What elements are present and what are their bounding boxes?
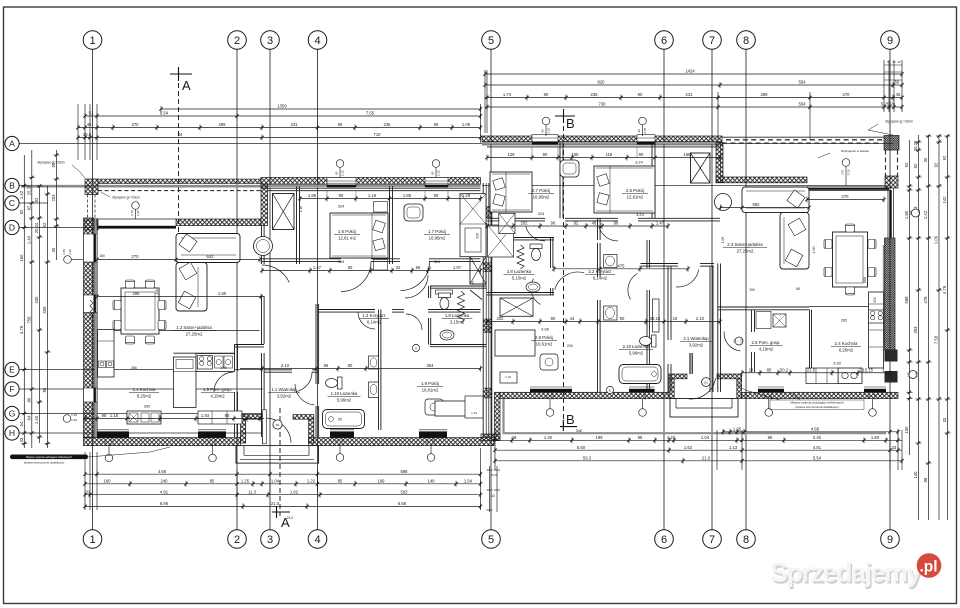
kitchen 2.4 west edge	[809, 310, 811, 372]
svg-text:92: 92	[19, 209, 24, 214]
svg-text:324: 324	[434, 259, 441, 264]
svg-text:1.97: 1.97	[453, 265, 462, 270]
grid bubble 7 top	[703, 31, 722, 50]
svg-text:180: 180	[99, 254, 105, 258]
svg-text:85: 85	[210, 479, 215, 484]
svg-text:710: 710	[374, 132, 382, 137]
door arc pom gosp 2.5	[724, 331, 740, 351]
svg-text:21.0: 21.0	[271, 501, 280, 506]
svg-text:266: 266	[131, 366, 137, 370]
window marker left terrace	[132, 202, 140, 210]
svg-text:2.10 Łazienka: 2.10 Łazienka	[623, 344, 650, 349]
window marker bottom 2.5	[765, 409, 773, 417]
sofa cushions diagonal	[787, 190, 805, 208]
svg-text:2.25: 2.25	[136, 210, 140, 216]
svg-text:4.79: 4.79	[942, 285, 947, 294]
svg-text:25,20: 25,20	[27, 184, 32, 195]
svg-text:1.86: 1.86	[308, 193, 317, 198]
svg-text:32: 32	[396, 265, 401, 270]
washbasin 2.10 lower	[604, 306, 617, 320]
wall room 2.7 | room 2.6	[559, 142, 561, 218]
shelf bathroom 1.8	[435, 290, 452, 294]
left edge dim line c	[39, 186, 41, 443]
svg-text:B: B	[566, 412, 575, 427]
svg-text:730: 730	[599, 102, 607, 107]
svg-text:1.6 Pokój: 1.6 Pokój	[338, 229, 356, 234]
svg-text:1.60: 1.60	[871, 435, 880, 440]
svg-text:2.25: 2.25	[341, 170, 345, 176]
svg-text:64: 64	[19, 421, 24, 426]
svg-text:330: 330	[144, 404, 151, 409]
washbasin 2.8	[526, 282, 540, 292]
svg-text:B: B	[566, 116, 575, 131]
dim row left corridor	[262, 270, 481, 272]
svg-text:393: 393	[913, 326, 918, 334]
svg-text:10,95m2: 10,95m2	[429, 235, 446, 240]
porch column dashed sides	[87, 195, 89, 221]
toilet bathroom 1.8	[438, 293, 450, 310]
dining table right house	[833, 232, 868, 287]
window marker west living	[64, 256, 72, 264]
svg-text:85: 85	[638, 435, 643, 440]
svg-text:90: 90	[348, 265, 353, 270]
svg-text:4.00: 4.00	[812, 247, 816, 254]
svg-text:44: 44	[570, 316, 575, 321]
terrace south wall	[176, 219, 261, 226]
svg-text:1.40: 1.40	[27, 235, 32, 244]
svg-text:1.18: 1.18	[368, 193, 377, 198]
svg-text:270: 270	[841, 169, 845, 174]
window marker room 1.7	[432, 160, 440, 168]
toilet 2.10	[640, 335, 657, 347]
kitchen counter edge top	[173, 352, 234, 354]
svg-text:H: H	[9, 428, 15, 438]
bathroom 1.8 north wall	[430, 285, 486, 287]
bottom wall window (room 2.9)	[530, 389, 572, 393]
dim riser lines top-left	[77, 104, 79, 160]
dim line top-left room widths	[78, 127, 481, 129]
dim row right rooms top	[487, 157, 720, 159]
svg-text:270: 270	[132, 122, 140, 127]
svg-text:25,20: 25,20	[491, 473, 498, 477]
grid axis line H	[19, 432, 263, 434]
room 2.9 east wall	[597, 218, 599, 240]
svg-text:1.42: 1.42	[923, 210, 928, 219]
toilet 1.10	[326, 377, 343, 389]
dim line bottom-left 491/593	[85, 494, 481, 496]
svg-text:129: 129	[508, 152, 516, 157]
grid bubble 6 bottom	[655, 530, 674, 549]
svg-text:1424: 1424	[685, 69, 695, 74]
grid bubble 8 bottom	[737, 530, 756, 549]
grid axis line F	[19, 388, 263, 390]
dim risers bottom-right	[494, 430, 496, 470]
svg-text:21.0: 21.0	[287, 516, 294, 520]
window in west wall (living room second)	[84, 295, 98, 313]
svg-text:118: 118	[606, 152, 613, 157]
pom gosp 2.5 east wall	[751, 310, 753, 332]
kitchen cupboard west wall	[98, 330, 115, 378]
svg-text:2.25: 2.25	[847, 169, 851, 175]
svg-text:B: B	[9, 180, 15, 190]
kitchen counter east	[869, 292, 884, 368]
svg-text:98: 98	[102, 413, 107, 418]
svg-text:1.76: 1.76	[471, 281, 475, 287]
washbasin 2.10 upper	[604, 255, 617, 268]
dim line bottom-right widths	[495, 439, 902, 441]
svg-text:1.3 Salon+jadalnia: 1.3 Salon+jadalnia	[176, 325, 212, 330]
svg-text:2.25: 2.25	[68, 249, 72, 255]
door arc room 2.6	[599, 226, 618, 241]
radiator bathroom 2.8	[517, 245, 524, 269]
window height marker right edge upper	[912, 209, 920, 217]
grid bubble C	[5, 196, 19, 210]
grid axis line 6	[663, 50, 665, 530]
svg-text:142: 142	[942, 196, 947, 204]
svg-text:1.40: 1.40	[71, 418, 77, 422]
svg-text:3.98: 3.98	[541, 327, 550, 332]
svg-text:2: 2	[234, 35, 240, 47]
svg-text:2.25: 2.25	[917, 210, 921, 216]
svg-text:5,96m2: 5,96m2	[629, 350, 644, 355]
svg-text:1.40: 1.40	[34, 415, 39, 424]
svg-text:2.1 Wiatrołap: 2.1 Wiatrołap	[683, 336, 709, 341]
svg-text:25,5: 25,5	[83, 132, 92, 137]
bathroom 2.8 east wall	[550, 238, 552, 269]
kitchen counter edge line	[97, 330, 260, 332]
svg-text:200: 200	[567, 344, 573, 348]
salon area divider dashes	[720, 142, 722, 182]
wardrobe X room 2.9	[500, 298, 533, 316]
svg-text:90: 90	[637, 395, 641, 399]
svg-text:92: 92	[27, 205, 32, 210]
svg-text:1.74: 1.74	[503, 92, 512, 97]
washbasin 1.10 upper	[369, 356, 379, 369]
door arc bathroom 1.10	[358, 312, 375, 329]
pom gosp and kitchen north wall	[718, 306, 809, 308]
svg-text:90: 90	[338, 122, 343, 127]
door arc room 2.7	[526, 226, 545, 241]
svg-text:1 19: 1 19	[505, 375, 511, 379]
dining chairs right	[824, 240, 832, 249]
window marker salon terrace	[842, 159, 850, 167]
dim row terrace	[97, 259, 260, 261]
svg-text:688: 688	[904, 296, 909, 304]
grid bubble D	[5, 220, 19, 234]
svg-text:7: 7	[709, 534, 715, 546]
grid bubble 2 bottom	[228, 530, 247, 549]
window in left house top wall (room 1.7)	[425, 178, 448, 187]
svg-text:18: 18	[673, 316, 678, 321]
svg-text:51: 51	[89, 111, 94, 116]
washbasin 1.8	[440, 330, 454, 340]
bathroom 2.10 east wall	[646, 240, 648, 268]
svg-text:2.25: 2.25	[213, 439, 217, 445]
svg-text:90: 90	[620, 316, 625, 321]
svg-text:90: 90	[551, 316, 556, 321]
svg-text:1.10 Łazienka: 1.10 Łazienka	[331, 391, 358, 396]
dim row left kitchen	[85, 418, 264, 420]
grid axis line D	[19, 227, 100, 229]
dim line bottom-left 466/598	[85, 473, 481, 475]
grid bubble H	[5, 426, 19, 440]
top right corner tick rows	[884, 64, 902, 66]
grid bubble 3 top	[261, 31, 280, 50]
svg-text:231: 231	[291, 122, 299, 127]
wardrobe room 2.7	[488, 225, 514, 257]
svg-text:Styropian gr.=20cm: Styropian gr.=20cm	[885, 120, 913, 124]
window marker west kitchen	[63, 415, 71, 423]
svg-text:180: 180	[907, 372, 911, 377]
roofed terrace dashed edge north	[722, 136, 884, 138]
kitchen sink unit	[215, 356, 224, 368]
corridor 1.2 north wall	[262, 258, 341, 260]
svg-text:50,2: 50,2	[780, 367, 789, 372]
pom gosp window in bottom wall	[198, 431, 226, 437]
svg-text:2.7 Pokój: 2.7 Pokój	[532, 188, 550, 193]
bed room 2.6	[594, 166, 655, 213]
left edge dim line a	[23, 155, 25, 448]
svg-text:(ściana wzmocniona dodatkowo): (ściana wzmocniona dodatkowo)	[795, 405, 839, 409]
svg-text:33: 33	[19, 437, 24, 442]
wiatrolap 1.1 inner door arc	[295, 384, 314, 405]
armchair hall right house	[560, 160, 579, 177]
svg-text:1.04: 1.04	[701, 435, 710, 440]
L sofa salon horizontal	[742, 187, 809, 213]
grid bubble A	[5, 136, 19, 150]
salon west wall	[717, 264, 719, 393]
dim line top-right widths	[485, 97, 902, 99]
svg-text:3.24: 3.24	[635, 160, 644, 165]
svg-text:E: E	[9, 364, 15, 374]
radiator bathroom 1.8	[458, 291, 465, 323]
svg-text:324: 324	[538, 211, 545, 216]
dim line top-left 710	[78, 137, 481, 139]
svg-text:90: 90	[544, 92, 549, 97]
svg-text:1 19: 1 19	[471, 411, 477, 415]
svg-text:1.7 Pokój: 1.7 Pokój	[428, 229, 446, 234]
L sofa living horizontal	[176, 234, 240, 263]
SE corner pier lower	[885, 371, 898, 383]
svg-text:7.55: 7.55	[366, 111, 375, 116]
svg-text:9: 9	[887, 534, 893, 546]
grid bubble 4 top	[308, 31, 327, 50]
right edge dim d	[938, 135, 940, 520]
dim risers bottom-left	[84, 452, 86, 510]
terrace glazing band	[98, 226, 176, 229]
svg-text:390: 390	[873, 297, 877, 303]
door marker 2.9 room	[606, 386, 613, 393]
porch roof edge strip	[98, 179, 261, 184]
grid axis line A	[19, 143, 893, 145]
door arc room 2.9	[555, 272, 584, 290]
dim salon 270	[807, 199, 884, 201]
svg-text:554: 554	[799, 102, 807, 107]
svg-text:4.79: 4.79	[19, 325, 24, 334]
svg-text:90: 90	[614, 221, 619, 226]
svg-text:1.22: 1.22	[307, 479, 316, 484]
svg-text:5: 5	[488, 534, 494, 546]
living room NE glazing	[807, 185, 889, 187]
wiatrolap 2.1 east wall	[709, 266, 711, 392]
dim line bottom-right 593/554	[495, 460, 902, 462]
door arc pom gosp	[214, 372, 233, 392]
door marker pom gosp 2.5	[735, 337, 743, 345]
svg-text:1.25: 1.25	[241, 479, 250, 484]
svg-text:84: 84	[178, 132, 183, 137]
door marker right porch	[702, 378, 711, 387]
svg-text:A: A	[9, 138, 15, 148]
window marker bottom kitchen 2.4	[869, 409, 877, 417]
svg-text:1.80: 1.80	[62, 249, 66, 255]
dim riser lines top-right	[484, 70, 486, 133]
svg-text:6,14m2: 6,14m2	[367, 319, 382, 324]
door arc room 1.6 from corridor	[341, 262, 371, 292]
door arc wiatrolap-kitchen	[296, 372, 313, 392]
dining chairs left	[126, 280, 135, 288]
svg-text:1359: 1359	[277, 104, 287, 109]
left entrance stoop	[236, 446, 319, 464]
right house top wall	[482, 136, 722, 142]
right edge dim c	[928, 135, 930, 520]
left porch door jamb and swing	[262, 422, 264, 444]
section line B	[563, 126, 565, 428]
right house bottom wall east segment	[742, 392, 898, 398]
svg-text:1.85: 1.85	[403, 193, 412, 198]
svg-text:5: 5	[488, 35, 494, 47]
left house bottom wall west segment	[84, 438, 241, 446]
svg-text:324: 324	[338, 259, 345, 264]
dim row right corridor	[487, 225, 668, 227]
svg-text:758: 758	[27, 316, 32, 324]
svg-text:202: 202	[521, 221, 529, 226]
svg-text:90: 90	[639, 152, 644, 157]
svg-text:479: 479	[923, 296, 928, 304]
svg-text:90: 90	[104, 440, 108, 444]
section mark A bottom	[272, 506, 290, 518]
window height marker right edge lower	[909, 371, 917, 379]
svg-text:593: 593	[401, 489, 409, 494]
svg-text:92: 92	[942, 155, 947, 160]
svg-text:85: 85	[225, 413, 230, 418]
bottom wall window (room 1.9)	[419, 431, 447, 437]
svg-text:90: 90	[867, 395, 871, 399]
step wall at party line	[495, 392, 501, 440]
door marker 1.9	[412, 344, 419, 351]
svg-text:92: 92	[574, 221, 579, 226]
svg-text:90: 90	[551, 221, 556, 226]
svg-text:1: 1	[89, 534, 95, 546]
dim row right kitchen	[742, 372, 890, 374]
east wall upper pier	[885, 176, 898, 188]
dim salon 682	[721, 207, 810, 209]
bed room 2.9	[495, 330, 535, 356]
svg-text:59.3: 59.3	[583, 456, 592, 461]
grid bubble 5 bottom	[482, 530, 501, 549]
dim row kitchen 288	[97, 296, 264, 298]
dim line top-right 730/554	[485, 106, 902, 108]
svg-text:2.2 Korytarz: 2.2 Korytarz	[588, 269, 611, 274]
east glazing band	[887, 188, 889, 238]
svg-text:554: 554	[799, 80, 807, 85]
svg-text:10,95m2: 10,95m2	[533, 194, 550, 199]
svg-text:8: 8	[743, 534, 749, 546]
kitchen lower counter row	[127, 411, 161, 424]
grid bubble 8 top	[737, 31, 756, 50]
right edge dim b	[918, 135, 920, 520]
window in west wall (kitchen)	[84, 388, 98, 402]
bottom wall window (bathroom 1.10)	[330, 431, 354, 437]
svg-text:12,61 m2: 12,61 m2	[338, 235, 357, 240]
svg-text:3.30: 3.30	[833, 361, 842, 366]
grid axis line E	[19, 369, 263, 371]
wiatrolap 2.1 north wall	[641, 263, 679, 265]
round table living room	[254, 237, 273, 256]
svg-text:88: 88	[923, 477, 928, 482]
radiator living west	[90, 300, 93, 318]
wall wiatrolap 1.1 east	[315, 304, 317, 384]
wall living room | room 1.6	[296, 186, 298, 264]
svg-text:92: 92	[913, 163, 918, 168]
svg-text:5.54: 5.54	[813, 456, 822, 461]
svg-text:36,15: 36,15	[650, 316, 661, 321]
right edge dim e	[947, 135, 949, 520]
wiatrolap 2.1 west wall	[667, 266, 669, 340]
svg-text:90: 90	[431, 171, 435, 175]
svg-text:5,15m2: 5,15m2	[512, 275, 527, 280]
porch column SW	[85, 220, 98, 230]
armchair room 1.7	[404, 204, 423, 221]
svg-text:4: 4	[314, 534, 320, 546]
svg-text:6: 6	[661, 534, 667, 546]
svg-text:90: 90	[335, 171, 339, 175]
svg-text:Styropian gr.=20cm: Styropian gr.=20cm	[37, 161, 65, 165]
svg-text:1.62: 1.62	[290, 489, 299, 494]
svg-text:2.3 Salon+jadalnia: 2.3 Salon+jadalnia	[727, 242, 763, 247]
dining table left house	[121, 288, 159, 334]
svg-text:A: A	[182, 78, 191, 93]
nightstand room 1.6 upper	[374, 202, 388, 213]
svg-text:180: 180	[909, 210, 913, 215]
svg-text:2.25: 2.25	[643, 393, 647, 399]
svg-text:25: 25	[892, 60, 896, 64]
svg-text:203: 203	[51, 194, 56, 202]
svg-text:4.91: 4.91	[160, 489, 169, 494]
svg-text:20: 20	[897, 60, 901, 64]
porch corner column NW	[85, 179, 98, 195]
svg-text:1.8 Łazienka: 1.8 Łazienka	[445, 313, 470, 318]
window marker bottom 1.10	[336, 454, 344, 462]
svg-text:2.25: 2.25	[915, 371, 919, 377]
svg-text:330: 330	[34, 296, 39, 304]
grid bubble 1 bottom	[83, 530, 102, 549]
svg-text:92: 92	[34, 197, 39, 202]
svg-text:21.5: 21.5	[807, 367, 816, 372]
svg-text:231: 231	[686, 92, 694, 97]
svg-text:Miejsce oparcia nadciągów żelb: Miejsce oparcia nadciągów żelbetowych	[26, 455, 73, 459]
svg-text:65: 65	[796, 287, 800, 291]
svg-text:820: 820	[598, 80, 606, 85]
svg-text:324: 324	[338, 204, 345, 209]
SE corner pier	[885, 350, 898, 362]
window edge risers right house	[531, 147, 533, 158]
svg-text:3,92m2: 3,92m2	[689, 342, 704, 347]
svg-text:1.5 Pom. gosp.: 1.5 Pom. gosp.	[203, 387, 232, 392]
window marker room 2.7	[542, 117, 550, 125]
grid axis line G	[19, 413, 263, 415]
bench room 1.9	[465, 396, 483, 418]
note miejsce oparcia bottom-left	[10, 455, 88, 460]
